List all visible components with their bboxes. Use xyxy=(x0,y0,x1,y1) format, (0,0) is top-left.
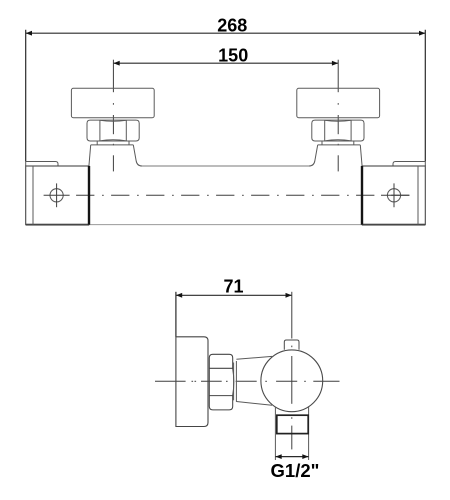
neck side view xyxy=(236,356,272,405)
right bracket hole xyxy=(381,183,409,207)
valve body circle xyxy=(261,350,323,412)
hex nut side view xyxy=(209,354,234,410)
right nut collar xyxy=(322,141,354,145)
left nut collar xyxy=(97,141,129,145)
svg-text:150: 150 xyxy=(218,46,248,66)
left handle knob xyxy=(71,88,154,117)
svg-text:268: 268 xyxy=(217,15,247,35)
svg-text:71: 71 xyxy=(223,276,243,296)
outlet thread section G1/2 xyxy=(277,415,308,433)
dimension 268 line xyxy=(26,31,426,36)
center line right handle xyxy=(337,60,339,172)
right valve neck xyxy=(309,145,362,166)
bar center line xyxy=(76,194,409,196)
dimension G1/2 line xyxy=(275,454,308,459)
extension line left (268) xyxy=(25,30,27,162)
center line left handle xyxy=(112,60,114,172)
svg-text:G1/2": G1/2" xyxy=(271,460,320,481)
top tab on valve body xyxy=(284,340,299,350)
left hex nut xyxy=(87,120,139,141)
left valve neck xyxy=(89,145,142,166)
dimension 71 line xyxy=(176,293,292,298)
right hex nut xyxy=(312,120,364,141)
nut collar side view xyxy=(234,361,237,402)
left bracket hole xyxy=(44,183,70,207)
handle side view xyxy=(176,337,208,427)
wall bar body xyxy=(26,166,426,225)
extension line (71 left) xyxy=(175,292,177,337)
right wall bracket xyxy=(362,166,425,225)
left wall bracket xyxy=(26,166,89,225)
left wall bracket tab xyxy=(26,162,58,167)
side view vertical center line xyxy=(291,292,293,450)
right handle knob xyxy=(297,88,380,117)
side view horizontal center line xyxy=(155,380,340,382)
right wall bracket tab xyxy=(393,162,425,167)
dimension 150 line xyxy=(113,61,338,66)
outlet tube sides xyxy=(275,406,308,460)
extension line right (268) xyxy=(424,30,426,162)
